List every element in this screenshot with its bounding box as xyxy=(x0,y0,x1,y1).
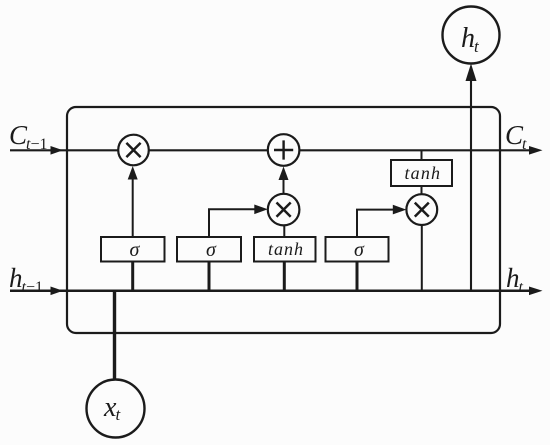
arrow elbow sigma2 to input multiply xyxy=(209,209,257,237)
wire C-line to tanh box stub xyxy=(421,150,423,160)
gate box tanh lower xyxy=(254,237,316,262)
wire tanh-gate to input multiply stub xyxy=(283,225,285,237)
svg-text:ht: ht xyxy=(506,263,524,296)
wire h-line up to h_t circle xyxy=(470,80,472,291)
svg-text:tanh: tanh xyxy=(268,239,303,259)
gate box sigma1 xyxy=(101,237,165,262)
wire sigma2 input stub xyxy=(208,262,211,292)
cell boundary rounded rectangle xyxy=(67,107,500,333)
svg-text:Ct−1: Ct−1 xyxy=(9,120,48,153)
multiply node forget gate xyxy=(118,135,149,166)
arrowhead C_t exit xyxy=(529,146,543,155)
gate box tanh upper xyxy=(391,160,452,186)
svg-text:Ct: Ct xyxy=(505,120,527,153)
arrowhead h-line entry xyxy=(51,287,64,296)
wire output multiply to h-line xyxy=(421,224,423,291)
wire h-line horizontal y=290 xyxy=(10,290,530,293)
wire sigma1 input stub xyxy=(131,262,134,292)
svg-text:ht−1: ht−1 xyxy=(9,263,43,296)
svg-text:σ: σ xyxy=(130,239,141,261)
wire tanh box to output multiply stub xyxy=(421,186,423,196)
svg-text:tanh: tanh xyxy=(405,163,441,183)
arrowhead C-line entry xyxy=(51,146,64,155)
gate box sigma3 xyxy=(326,237,389,262)
multiply node input gate xyxy=(268,194,300,226)
wire sigma3 input stub xyxy=(356,262,359,292)
arrow input multiply to add xyxy=(283,179,285,195)
add node cell update xyxy=(268,134,300,166)
multiply node output gate xyxy=(406,194,437,225)
arrowhead h_t exit xyxy=(529,287,543,296)
arrow elbow sigma3 to output multiply xyxy=(357,210,395,237)
wire C-line horizontal y=150 xyxy=(10,149,530,151)
gate box sigma2 xyxy=(177,237,241,262)
arrowhead into h_t circle xyxy=(466,64,477,82)
wire tanh-gate input stub xyxy=(283,262,286,292)
svg-text:σ: σ xyxy=(354,239,365,261)
svg-text:σ: σ xyxy=(206,239,217,261)
node h_t circle top xyxy=(443,7,500,64)
wire x_t input vertical xyxy=(113,291,116,380)
arrow sigma1 to forget multiply xyxy=(132,178,134,237)
node x_t circle bottom xyxy=(87,380,145,438)
